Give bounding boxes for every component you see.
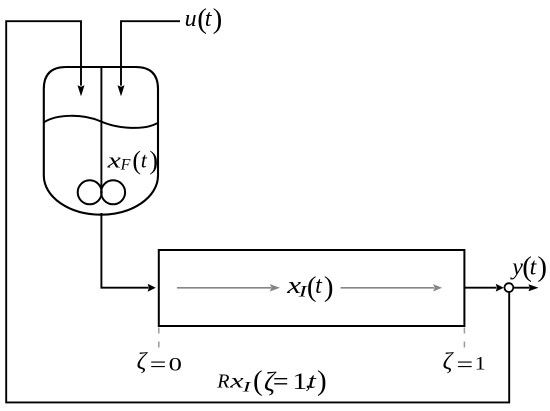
arrowhead into tank (u input): [118, 85, 125, 96]
svg-text:R: R: [216, 371, 229, 393]
label zeta = 0: [137, 349, 182, 377]
stirrer impeller right circle: [101, 180, 125, 204]
svg-text:(t): (t): [307, 271, 334, 303]
svg-text:): ): [317, 365, 327, 397]
output wire: [513, 287, 529, 289]
stirrer shaft: [100, 67, 102, 192]
svg-text:=: =: [150, 351, 167, 377]
dashed marker zeta=0: [158, 328, 160, 350]
arrowhead into tube inlet: [148, 284, 156, 292]
gray flow arrow left: [177, 287, 271, 289]
arrowhead into node: [496, 284, 504, 292]
svg-text:ζ: ζ: [443, 349, 455, 375]
wire from u(t): [121, 21, 180, 85]
summing node circle: [505, 283, 514, 292]
svg-text:I: I: [241, 379, 252, 395]
svg-text:y(t): y(t): [510, 251, 547, 283]
label xI(t): [286, 271, 333, 303]
tank vessel outline: [44, 67, 158, 215]
label zeta = 1: [443, 349, 486, 377]
tube (plug flow reactor): [159, 250, 465, 326]
dashed marker zeta=1: [463, 328, 465, 350]
svg-text:F(t): F(t): [120, 146, 158, 175]
svg-text:(: (: [253, 365, 263, 397]
arrowhead into tank (recycle): [78, 85, 85, 96]
svg-text:=: =: [457, 351, 474, 377]
gray flow arrow right: [341, 287, 434, 289]
svg-text:x: x: [106, 148, 121, 172]
svg-text:t: t: [308, 368, 317, 393]
stirrer impeller left circle: [78, 180, 102, 204]
label xF(t): [106, 146, 158, 175]
svg-text:u(t): u(t): [185, 3, 223, 35]
liquid surface wave: [44, 116, 158, 128]
svg-text:ζ: ζ: [137, 349, 149, 375]
svg-text:0: 0: [169, 353, 182, 374]
label R xI (zeta = 1, t): [216, 365, 326, 397]
output arrowhead y(t): [528, 284, 538, 291]
svg-text:1: 1: [475, 354, 486, 374]
svg-text:=: =: [273, 367, 289, 396]
outlet pipe wire: [101, 213, 148, 288]
wire tube outlet to node: [464, 287, 496, 289]
